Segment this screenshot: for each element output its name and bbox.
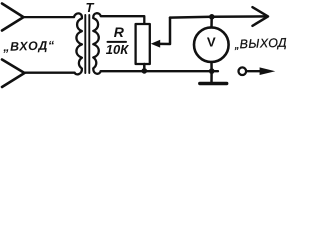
output terminal circle bottom xyxy=(239,67,247,75)
svg-text:„ВХОД“: „ВХОД“ xyxy=(2,38,55,54)
transformer core line 1 xyxy=(84,15,86,73)
resistor bottom stub xyxy=(143,64,146,71)
junction dot voltmeter bottom xyxy=(209,68,215,74)
ground bar xyxy=(200,82,227,85)
svg-text:T: T xyxy=(86,0,95,15)
output arrow bottom wire xyxy=(248,70,263,72)
svg-text:R: R xyxy=(114,24,125,40)
transformer secondary winding + wire to resistor + bottom rail xyxy=(93,13,218,74)
svg-text:10К: 10К xyxy=(106,42,129,57)
wire input top + transformer primary winding xyxy=(24,13,82,74)
input terminal arrow top xyxy=(2,4,24,31)
output arrowhead top xyxy=(253,7,269,26)
wiper arrowhead xyxy=(151,40,160,48)
voltmeter bottom stub xyxy=(210,62,213,71)
voltmeter top stub xyxy=(210,17,213,28)
input terminal arrow bottom xyxy=(2,60,25,88)
ground stem xyxy=(210,71,213,82)
junction dot resistor-rail xyxy=(142,68,148,74)
resistor R (potentiometer body) xyxy=(136,24,150,64)
potentiometer wiper arrow xyxy=(160,18,170,44)
svg-text:„ВЫХОД“: „ВЫХОД“ xyxy=(234,35,287,51)
transformer core line 2 xyxy=(88,15,90,73)
output wire top xyxy=(170,16,266,17)
fraction bar under R xyxy=(108,41,127,43)
svg-text:V: V xyxy=(207,34,216,49)
voltmeter V xyxy=(194,27,229,62)
output arrowhead bottom xyxy=(260,67,276,75)
junction dot voltmeter top xyxy=(209,14,215,20)
